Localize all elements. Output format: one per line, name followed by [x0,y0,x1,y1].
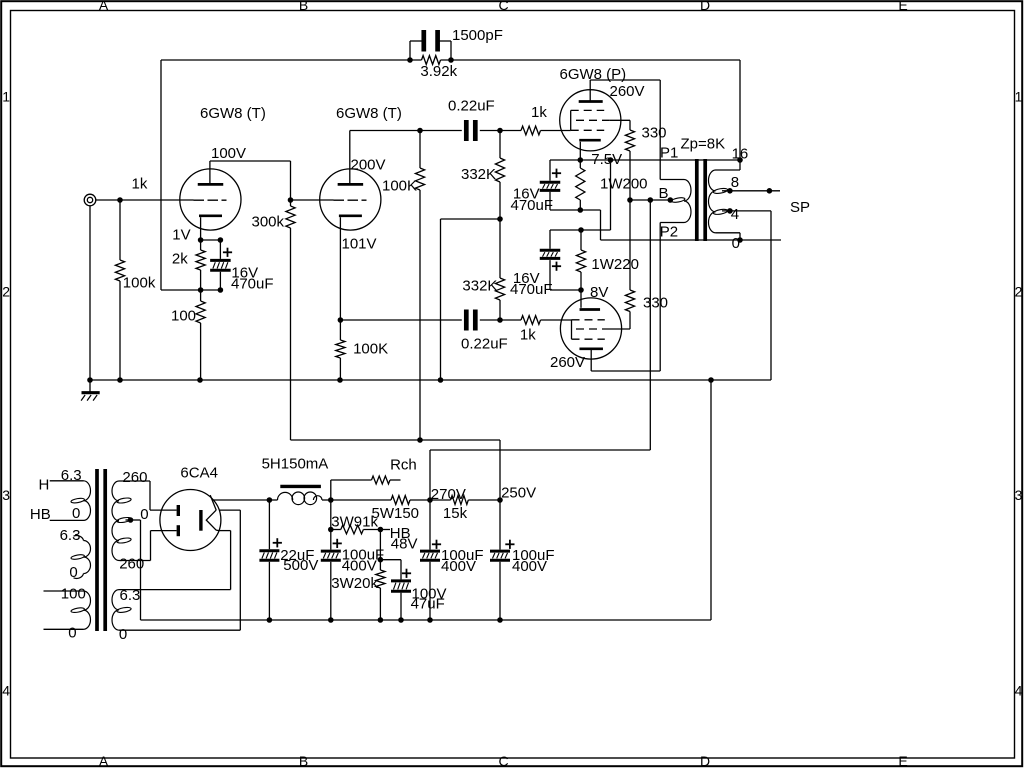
node upper coupling [497,128,503,134]
svg-text:4: 4 [2,683,10,699]
pentode V4 6GW8 lower output [550,298,630,371]
wire lower network top jog [581,160,611,230]
svg-text:B: B [299,0,308,13]
svg-text:100K: 100K [353,341,388,358]
svg-text:8: 8 [731,174,739,191]
wire V5 heater pin bottom to 6.3V winding [119,530,231,589]
svg-text:1: 1 [2,89,10,105]
wire PS ground return [710,380,712,620]
wire lower coupling row [340,319,461,321]
node 16 ohm tap [732,145,749,163]
node lower coupling [497,317,503,323]
node input junction [117,197,123,203]
wire 16 tap jog [716,160,741,170]
svg-text:H: H [39,477,50,494]
svg-text:332K: 332K [461,166,496,183]
wire to V2 grid [291,199,334,201]
transformer T1 primary winding P1-B-P2 [660,145,691,241]
capacitor 100uF 400V at 270V [420,500,484,620]
wire HT bottom to V5 plate 2 [151,531,177,561]
node 332K midpoint [497,216,503,222]
resistor 5W150 filter [331,496,430,522]
node lower cathode network top [550,227,584,233]
svg-text:400V: 400V [342,558,377,575]
node first filter [267,497,273,503]
node feedback network left [407,57,413,63]
svg-text:3W20k: 3W20k [331,575,378,592]
svg-text:0.22uF: 0.22uF [461,336,508,353]
wire B+ output from rectifier [212,499,269,501]
svg-text:4: 4 [731,206,739,223]
svg-text:1k: 1k [531,104,547,121]
svg-text:B: B [659,185,669,202]
svg-text:2: 2 [2,284,10,300]
capacitor 100uF 400V first [321,530,384,621]
node 270V [427,486,466,503]
rectifier V5 6CA4 [160,464,221,550]
svg-text:D: D [700,0,710,13]
svg-text:260V: 260V [610,83,645,100]
wire 16 tap / V3 cathode row [550,157,740,163]
svg-text:100K: 100K [382,178,417,195]
svg-text:P2: P2 [660,223,678,240]
resistor 15k filter [430,496,500,522]
node V3 cathode network bottom [550,207,601,240]
resistor 1W200 cathode V3 [576,151,648,210]
inductor 5H150mA choke [262,456,331,505]
input jack J1 [84,194,96,206]
svg-text:0: 0 [68,625,76,642]
resistor 1k grid stopper lower [520,316,572,344]
wire feedback from 16 ohm tap [161,60,740,290]
transformer T2 heater winding 6.3V second [60,527,91,581]
wire 332K midpoint to ground [441,219,501,380]
svg-text:P1: P1 [660,145,678,162]
svg-text:0: 0 [732,235,740,252]
svg-text:48V: 48V [391,536,418,553]
resistor 3W91k heater bias divider [331,514,381,534]
svg-text:1W200: 1W200 [600,176,648,193]
svg-text:2k: 2k [172,251,188,268]
wire 0 tap row [601,239,782,241]
node feedback network right [448,57,454,63]
svg-text:260V: 260V [550,354,585,371]
node V1 plate / V2 grid [288,197,294,203]
svg-text:16: 16 [732,145,749,162]
svg-text:400V: 400V [441,558,476,575]
node 0 tap [732,235,743,252]
resistor 100K plate load V2 [382,131,425,441]
svg-text:1W220: 1W220 [591,256,639,273]
svg-text:470uF: 470uF [510,281,553,298]
resistor Rch alternative [331,457,417,501]
capacitor 47uF 100V heater bias [380,560,446,620]
resistor 1k grid stopper upper [521,104,571,135]
node V4 cathode 8V [550,284,608,308]
wire 0 tap jog [716,233,741,240]
resistor 1W220 cathode V4 [576,230,639,290]
resistor 332K grid return lower [462,219,504,320]
svg-text:7.5V: 7.5V [591,151,622,168]
svg-text:Zp=8K: Zp=8K [681,136,726,153]
svg-text:250V: 250V [501,484,536,501]
wire 8 ohm tap to SP [722,174,810,216]
wire V4 plate to P2 [591,223,684,372]
wire B+ to output transformer B tap [430,200,650,500]
transformer T1 output Zp=8K core [681,136,726,242]
wire HT top to V5 plate 1 [150,481,177,510]
svg-text:4: 4 [1015,683,1023,699]
capacitor 0.22uF coupling lower [461,310,521,353]
svg-text:1k: 1k [132,175,148,192]
svg-text:100: 100 [61,585,86,602]
resistor 330 screen lower [625,200,668,329]
svg-text:SP: SP [790,199,810,216]
svg-text:0.22uF: 0.22uF [448,97,495,114]
node V2 cathode / lower coupling [338,317,344,323]
capacitor 470uF 16V cathode V3 [511,160,562,214]
resistor 330 screen upper [625,120,666,200]
svg-text:Rch: Rch [390,457,417,474]
node V2 plate / 100K [417,128,423,134]
svg-text:6.3: 6.3 [61,467,82,484]
svg-text:6CA4: 6CA4 [180,464,218,481]
wire V3 plate to P1 [590,80,684,180]
svg-text:3: 3 [2,487,10,503]
resistor 332K grid return upper [461,131,505,220]
svg-text:400V: 400V [512,558,547,575]
wire V5 heater pin top to 6.3V winding [119,510,240,630]
svg-text:15k: 15k [443,505,468,522]
transformer T2 HT winding 260-0-260 [112,469,151,573]
wire 250V to driver loads [291,437,501,500]
svg-text:100V: 100V [211,145,246,162]
triode V2 6GW8 (T) second stage [320,105,402,320]
node V1 cathode top [198,237,223,243]
resistor 100k input load [115,200,155,380]
node 250V [497,484,536,503]
wire jack sleeve to ground rail [89,206,91,380]
transformer T2 primary 100V winding [44,585,91,641]
wire V2 plate row [350,130,462,132]
svg-text:100k: 100k [123,275,156,292]
node HT center tap [126,517,141,620]
svg-text:47uF: 47uF [411,596,445,613]
ground symbol [81,380,100,401]
wire PS ground rail [141,617,712,623]
resistor 100K cathode V2 [336,320,388,380]
node 3W20k top [378,530,384,563]
node choke output [328,497,334,503]
wire input jack to V1 grid [96,175,194,200]
svg-text:B: B [299,753,308,768]
resistor 3.92k feedback [420,56,457,80]
svg-text:6.3: 6.3 [60,527,81,544]
svg-text:A: A [99,753,109,768]
svg-text:100: 100 [171,307,196,324]
ground rail [87,377,771,383]
transformer T1 secondary winding [709,170,728,233]
resistor 3W20k heater bias divider [331,560,385,620]
svg-text:0: 0 [69,564,77,581]
svg-text:0: 0 [140,506,148,523]
capacitor 0.22uF coupling upper [448,97,521,141]
svg-text:A: A [99,0,109,13]
svg-text:5H150mA: 5H150mA [262,456,329,473]
svg-text:500V: 500V [283,557,318,574]
svg-text:HB: HB [30,506,51,523]
svg-text:5W150: 5W150 [372,505,420,522]
svg-text:101V: 101V [342,235,377,252]
resistor 2k cathode bias V1 [172,240,205,290]
svg-text:470uF: 470uF [511,197,554,214]
svg-text:332K: 332K [462,278,497,295]
resistor 300k plate load V1 [252,206,296,440]
capacitor 470uF 16V cathode V4 [510,230,561,298]
svg-text:330: 330 [642,125,667,142]
svg-text:300k: 300k [252,214,285,231]
svg-text:1: 1 [1015,89,1023,105]
svg-text:C: C [498,753,508,768]
svg-text:1k: 1k [520,327,536,344]
node V1 cathode bottom / feedback [198,287,223,293]
capacitor 100uF 400V at 250V [490,500,555,620]
node 3W91k input [328,500,334,532]
capacitor 1500pF feedback [410,27,503,60]
transformer T2 power core [97,469,105,631]
svg-text:260: 260 [122,469,147,486]
svg-text:D: D [700,753,710,768]
resistor 100 feedback divider [171,290,205,380]
wire B tap row [627,185,673,203]
svg-text:3.92k: 3.92k [420,63,457,80]
transformer T2 rectifier heater winding 6.3V [112,587,140,643]
svg-text:3W91k: 3W91k [331,514,378,531]
svg-text:470uF: 470uF [231,275,274,292]
capacitor 470uF 16V cathode bypass V1 [210,240,273,292]
svg-text:330: 330 [643,295,668,312]
capacitor 22uF 500V first filter [259,500,318,620]
svg-text:200V: 200V [351,157,386,174]
svg-text:6GW8 (T): 6GW8 (T) [336,105,402,122]
svg-text:E: E [898,0,907,13]
svg-text:2: 2 [1015,284,1023,300]
transformer T2 heater winding H 6.3V [30,467,91,523]
svg-text:0: 0 [119,626,127,643]
triode V1 6GW8 (T) first stage [172,105,266,243]
svg-text:1500pF: 1500pF [452,27,503,44]
svg-text:C: C [498,0,508,13]
svg-text:E: E [898,753,907,768]
svg-text:1V: 1V [172,226,190,243]
wire 4 ohm tap to ground [722,206,771,380]
pentode V3 6GW8 (P) upper output [560,66,645,160]
svg-text:3: 3 [1015,487,1023,503]
wire V1 plate to V2 grid node [210,161,291,206]
svg-text:0: 0 [72,505,80,522]
svg-text:6GW8 (T): 6GW8 (T) [200,105,266,122]
node HB 48V [378,525,418,552]
